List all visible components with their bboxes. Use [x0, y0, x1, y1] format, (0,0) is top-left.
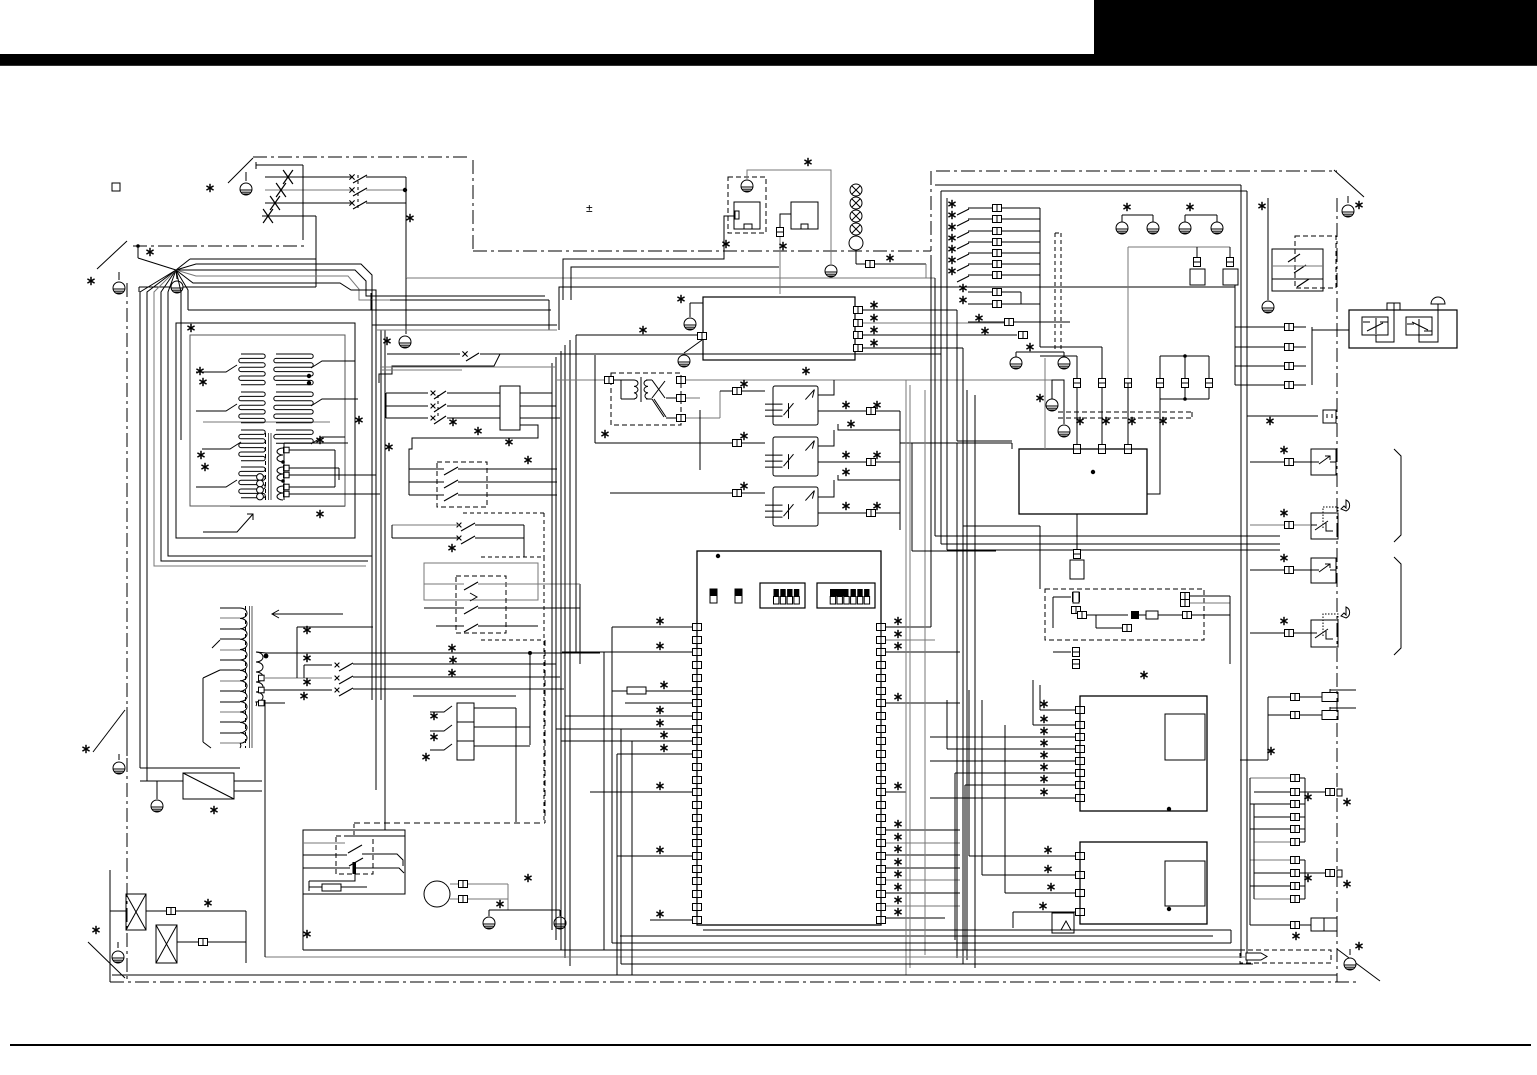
rectifier wires [140, 780, 183, 782]
bus wire A [406, 277, 935, 279]
bottom harness [612, 942, 1231, 944]
T3 wires [557, 379, 604, 381]
twisted-wire marker [270, 196, 280, 210]
isolation transformer T3 (dashed box) [611, 373, 681, 425]
unit boundary chain bottom [110, 981, 1360, 983]
T3 core [640, 377, 642, 402]
switch contact [466, 353, 479, 361]
left wire stars [656, 617, 663, 625]
driver block B [1080, 842, 1207, 924]
frame ground [399, 336, 411, 348]
ground row (4x) [1122, 214, 1153, 216]
T2 secondary pins [259, 675, 265, 681]
grey box [424, 563, 538, 600]
group B collector [1304, 860, 1306, 899]
power PCB block [703, 297, 855, 360]
relay [765, 487, 818, 526]
inverter block [1019, 449, 1147, 514]
long wire y335 [576, 334, 698, 336]
input feed wire [255, 162, 257, 169]
relay feed wires [699, 410, 701, 470]
winding [256, 652, 263, 706]
T2 primary taps [220, 607, 240, 609]
T1 aux wires [289, 449, 335, 451]
capacitor box [791, 202, 818, 229]
fan-out wire 4 [176, 270, 549, 300]
lamp wires [855, 250, 857, 264]
switch contact [444, 467, 458, 475]
shielded pair (dashed) [1054, 233, 1056, 352]
fan FM2 [156, 925, 177, 963]
input wire L1 [265, 176, 351, 178]
lower wire stars [448, 644, 455, 652]
driver A stars [1040, 700, 1047, 708]
vertical bus left [371, 300, 373, 700]
switch contact [434, 416, 446, 424]
fan-out wire 2 [176, 264, 372, 700]
wire input drop [405, 177, 407, 278]
switch contact [339, 663, 353, 671]
right pin wires [886, 626, 931, 628]
right long verticals [1240, 185, 1242, 958]
jumper switch 2 [735, 589, 742, 603]
capacitor wire [780, 214, 791, 228]
grey double y368 [380, 366, 556, 368]
stack riser [529, 653, 531, 745]
interlock chamfers [348, 835, 405, 837]
thermistor wire [1044, 358, 1046, 449]
double relay box far right [1349, 310, 1457, 348]
connector column CN [993, 205, 1002, 212]
winding [239, 467, 265, 498]
harness fan-out node [137, 246, 139, 258]
driver A pin wires [1040, 709, 1075, 711]
T1 aux core [265, 433, 267, 500]
sensor bottom pins [1073, 648, 1080, 657]
thermostat 3 [1311, 558, 1336, 583]
switch contact [464, 624, 478, 632]
sensor right pins [1181, 593, 1190, 600]
frame ground [113, 762, 125, 774]
thermostat 4 (with heater) [1311, 620, 1338, 647]
bus wire E [390, 299, 549, 301]
CN bus [1039, 208, 1041, 347]
black title block top-right [1094, 0, 1537, 55]
ground on input drop [405, 278, 407, 334]
unit boundary chain right side [1336, 198, 1338, 982]
winding [240, 608, 247, 748]
T1 wiring [188, 309, 551, 311]
switch contact [1294, 265, 1306, 273]
T1 lead stars [196, 367, 203, 375]
frame ground [741, 180, 753, 192]
ballast stars [449, 418, 456, 426]
winding [644, 380, 648, 399]
K2 wires [424, 583, 464, 585]
ground pair under motor [489, 909, 560, 911]
terminal wires [474, 707, 516, 709]
fan-out wire 7 [176, 270, 181, 320]
switch contact [957, 220, 969, 226]
wires above [1040, 355, 1077, 357]
crimp connector (dashed) [1240, 950, 1331, 963]
lamp [850, 223, 862, 235]
T2 aux vertical [296, 627, 298, 678]
heater terminal box [1311, 918, 1337, 931]
interlock bar [353, 862, 357, 874]
sensor bus right [1229, 596, 1231, 664]
switch contact [957, 276, 969, 282]
switch contact [339, 676, 353, 684]
switch group S2 [335, 663, 340, 668]
warning triangle [1061, 921, 1071, 930]
socket symbol [1323, 410, 1336, 423]
bottom harness drops [611, 627, 613, 943]
switch contact [464, 606, 478, 614]
chassis corner top-right with ground [1334, 170, 1364, 197]
frame ground [113, 282, 125, 294]
switch contact [1297, 279, 1309, 287]
motor leads [450, 883, 458, 885]
ballast box [500, 386, 520, 430]
T3 primary [614, 379, 634, 381]
dashed line to right [354, 822, 545, 824]
switch contact [957, 254, 969, 260]
bus wire D [559, 287, 1235, 330]
chassis corner bottom-left with ground [88, 942, 125, 978]
staircase pair y325 [372, 324, 557, 326]
snubber loop [1160, 355, 1209, 357]
ballast wires [386, 392, 428, 394]
interlock feed vertical [264, 700, 266, 957]
interlock wires [303, 842, 345, 844]
buzzer D symbol 2 [1341, 607, 1350, 618]
switch contact [957, 232, 969, 238]
switch contact [339, 688, 353, 696]
switch contact [957, 243, 969, 249]
unit boundary chain top-left [253, 156, 470, 158]
switch contact [461, 536, 475, 544]
inverter bottom lead [1076, 514, 1078, 550]
right pin group B [1291, 857, 1300, 864]
sensor block (dashed) [1045, 589, 1204, 640]
main PCB bottom wire [703, 929, 1231, 931]
winding [239, 430, 265, 461]
chassis corner top-left with ground [228, 158, 253, 183]
T1 grey bottom rail [230, 506, 345, 508]
pins pair lower [993, 289, 1002, 296]
terminal stack [457, 703, 474, 722]
bus wire B [563, 216, 734, 300]
pins to double relay [1285, 324, 1294, 331]
resistor [322, 884, 341, 891]
group A sensor pin [1300, 791, 1326, 793]
vertical bus right of PCB [905, 380, 907, 975]
DIP switch SW2 [817, 583, 875, 608]
driver block A [1080, 696, 1207, 811]
frame ground [825, 265, 837, 277]
switch contact [353, 201, 367, 209]
interlock box tail [302, 894, 304, 950]
vertical bus center-left [551, 363, 553, 930]
driver A pins [1076, 707, 1085, 714]
K1 wires [409, 468, 444, 470]
power PCB grounds [690, 302, 703, 304]
star note [206, 184, 213, 192]
stars above box [1076, 417, 1083, 425]
winding [239, 392, 265, 423]
ground pair 2 [1046, 399, 1058, 411]
small square marker [112, 183, 120, 191]
switch contact [349, 858, 363, 866]
thermostat 2 (with heater) [1311, 513, 1338, 539]
bus wire C [571, 267, 779, 300]
relay output bus [899, 411, 901, 530]
T1 secondary taps [311, 361, 345, 368]
switch contact [957, 265, 969, 271]
transformer T1 outer case [176, 323, 355, 538]
switch contact [444, 493, 458, 501]
group A collector [1304, 778, 1306, 842]
right wire stars [894, 617, 901, 625]
RY1 input pin [733, 388, 742, 395]
K2 dashed outer [481, 556, 544, 558]
driver B pin wires [969, 855, 1075, 857]
fan-out wire 5 [176, 270, 376, 790]
relay [765, 437, 818, 476]
switch contact [434, 404, 446, 412]
T2 lead frame [212, 640, 220, 648]
switch contact [1288, 254, 1300, 262]
T1 aux rail [284, 442, 348, 444]
connector pins mid right [1311, 327, 1313, 385]
main PCB left pins [693, 624, 702, 631]
fan FM1 [126, 894, 146, 930]
rectifier / converter [183, 773, 234, 799]
harness risers right [1230, 930, 1232, 943]
T2 top lead [264, 654, 269, 659]
winding [274, 392, 313, 423]
relay contact box K1 (dashed) [437, 462, 487, 507]
winding [277, 486, 283, 500]
frame ground [483, 917, 495, 929]
DIP switch SW1 [760, 583, 805, 608]
dashed switch box inside [336, 836, 373, 874]
switch contact [434, 391, 446, 399]
thermostat 1 [1311, 449, 1336, 475]
RY2 lower wire [838, 475, 900, 480]
T2 secondary wires [264, 677, 332, 679]
T2 junction stars [303, 626, 310, 634]
sensor lower pin [1123, 625, 1132, 632]
relay contact box K2 (dashed) [456, 576, 506, 633]
chassis corner left with ground [97, 241, 127, 269]
top group feed [1267, 697, 1269, 760]
switch contact [957, 209, 969, 215]
power PCB right pins [854, 307, 863, 314]
winding [634, 380, 638, 399]
frame ground [684, 318, 696, 330]
inverter top pins [1074, 445, 1081, 454]
driver B pins [1076, 853, 1085, 860]
sensor pins [1073, 593, 1080, 602]
ground wire grey [747, 170, 831, 264]
socket wire [1247, 415, 1318, 417]
bottom rule [10, 1044, 1531, 1046]
lamp [850, 210, 862, 222]
PCB wire drops [956, 310, 958, 441]
twisted-wire marker [276, 183, 286, 197]
frame ground [554, 917, 566, 929]
switch mechanical link [357, 175, 359, 208]
switch contact [353, 188, 367, 196]
terminal chevrons [430, 706, 452, 712]
switch contact [464, 582, 478, 590]
feed and ground [1267, 198, 1269, 300]
relay glyph 2 [1407, 323, 1414, 325]
T1 divider [203, 421, 330, 423]
top fittings [1387, 303, 1400, 310]
vertical collectors left [1249, 778, 1251, 925]
frame ground [1344, 958, 1356, 970]
frame ground [678, 355, 690, 367]
right pin group A [1291, 775, 1300, 782]
T2 core [249, 606, 251, 748]
single pins [1005, 319, 1014, 326]
switch contact [348, 845, 362, 853]
branch staircase from switch [379, 354, 500, 383]
black header rule [0, 54, 1537, 66]
fan supply wires [110, 910, 126, 912]
ground below rectifier [156, 792, 158, 799]
T1 tap arrow c [202, 442, 241, 449]
main control PCB [697, 551, 881, 925]
fan-out drop wires [168, 270, 372, 556]
left pin wires [612, 626, 692, 628]
buzzer D symbol 1 [1341, 500, 1350, 511]
twisted-wire marker [263, 209, 273, 223]
T1 winding rings [257, 474, 264, 481]
interlock box bottom-center [303, 830, 405, 894]
switch pair S3 [457, 523, 462, 528]
bracket 2 [1394, 557, 1401, 655]
fan wiring [146, 910, 246, 912]
noise filter inner box [734, 202, 760, 229]
power PCB pin wires [863, 309, 957, 311]
inverter feed verticals [1076, 356, 1078, 449]
fuse pair [1128, 246, 1230, 248]
right pin group top [1291, 694, 1300, 701]
fan-out wire 3 [176, 270, 545, 296]
switch S1 pole 1 [349, 174, 354, 179]
input wire L3 [265, 202, 351, 204]
wire from box right [1147, 399, 1160, 494]
T1 tap arrow a [196, 365, 237, 372]
switch contact [461, 523, 475, 531]
winding [274, 354, 313, 385]
group B sensor pin [1300, 872, 1326, 874]
dashed channel horizontal [1058, 411, 1192, 413]
relay glyph 1 [1363, 321, 1370, 323]
transformer T1 inner frame [190, 335, 345, 506]
T3 crossover [652, 380, 665, 398]
motor M1 [424, 881, 450, 907]
T1 tap arrow d [196, 480, 237, 487]
bundle to right top [935, 184, 1241, 186]
chassis corner mid-left with ground [93, 710, 125, 752]
noise filter (dashed box) [728, 177, 766, 233]
frame ground [240, 183, 252, 195]
winding [277, 448, 283, 462]
noise filter wire [724, 216, 734, 259]
chassis corner bottom-right with ground [1337, 949, 1380, 981]
frame ground [1342, 205, 1354, 217]
unit boundary chain left side [126, 283, 128, 982]
frame ground [112, 951, 124, 963]
winding [274, 430, 313, 443]
lamp [850, 197, 862, 209]
T2 arrow [272, 613, 343, 615]
long wire y354 with switch [387, 353, 460, 355]
right lower pin C [1291, 922, 1300, 929]
switch contact [444, 480, 458, 488]
relay contact box top-right (dashed) [1272, 249, 1323, 291]
switch contact [353, 175, 367, 183]
shield to ground [1010, 357, 1022, 369]
winding [239, 354, 265, 385]
pull-up resistor [627, 687, 646, 694]
sensor chain [1078, 612, 1087, 619]
RY1 output [818, 380, 834, 395]
jumper switch 1 [710, 589, 717, 603]
T3 pins [605, 377, 614, 384]
relay [765, 386, 818, 425]
left pin wires 2 [565, 715, 692, 717]
main PCB right pins [877, 624, 886, 631]
center drop verticals [911, 443, 913, 551]
T1 tap arrow b [196, 404, 237, 411]
frame ground [151, 800, 163, 812]
fuse bus down [1127, 247, 1129, 383]
T1 adjust arrow [203, 514, 253, 532]
wire into power PCB [578, 334, 697, 336]
ground at fan-out [176, 270, 177, 279]
RY1 lower wire [838, 424, 900, 430]
fan-out wire 1 [176, 259, 190, 270]
winding [277, 467, 283, 481]
fan-out wire 6 to transformer [176, 270, 188, 310]
dashed link box [463, 512, 544, 514]
T1 aux pins [284, 447, 290, 453]
lamp [850, 184, 862, 196]
twisted-wire marker [283, 170, 293, 184]
svg-text:±: ± [586, 201, 593, 215]
wire N lower branch [139, 286, 316, 288]
bracket 1 [1394, 449, 1401, 542]
input wire L2 [265, 189, 351, 191]
frame ground [171, 281, 183, 293]
ballast bottom loop [409, 425, 538, 462]
